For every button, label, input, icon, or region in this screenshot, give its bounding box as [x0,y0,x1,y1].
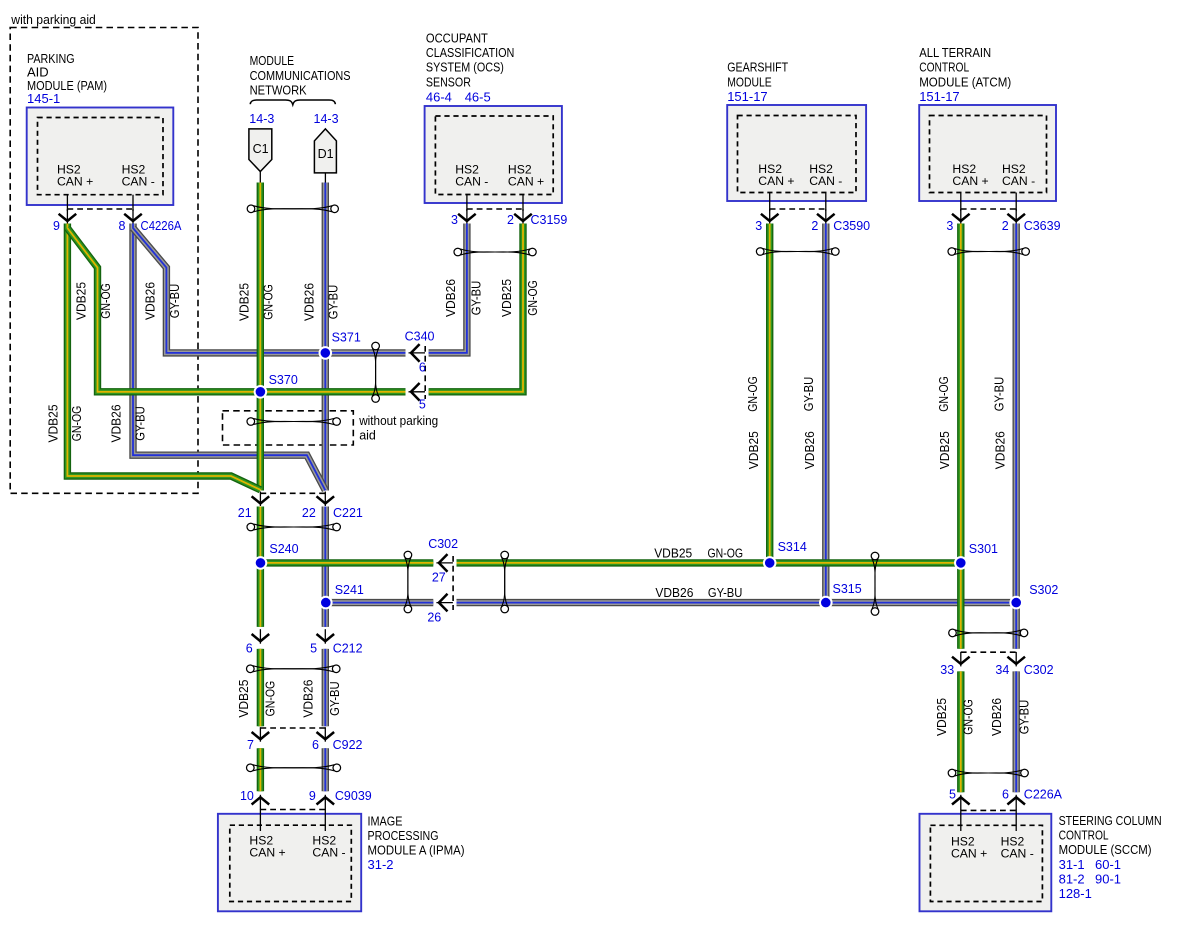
wire label VDB26 GY-BU on horizontal run [655,586,742,600]
svg-text:46-4: 46-4 [426,90,452,105]
wire label VDB25 [938,431,952,469]
svg-text:2: 2 [507,213,514,227]
svg-text:7: 7 [247,738,254,752]
svg-text:C3639: C3639 [1024,219,1061,233]
svg-text:GY-BU: GY-BU [134,406,148,441]
wire VDB26 GY-BU from C302 pin 34 to C226A pin 6 (SCCM) [1013,671,1020,792]
svg-text:14-3: 14-3 [249,112,274,126]
svg-text:8: 8 [119,219,126,233]
svg-text:CAN -: CAN - [455,175,488,189]
svg-text:C340: C340 [405,330,435,344]
wire label VDB25 [237,680,251,718]
svg-text:S240: S240 [269,542,298,556]
svg-text:C9039: C9039 [335,789,372,803]
wire VDB26 GY-BU from C340 pin 6 right and up to OCS pin 3 [429,224,467,353]
wire label GY-BU [992,377,1006,412]
svg-text:GN-OG: GN-OG [99,283,113,319]
connector C1 (network drop) [249,112,274,183]
twisted pair right of C302 pins 27/26 [501,551,509,613]
twisted pair below C922 [247,764,341,772]
svg-text:31-1: 31-1 [1059,857,1085,872]
svg-text:without parking: without parking [358,414,438,428]
svg-text:VDB26: VDB26 [655,586,693,600]
wire VDB25 GN-OG from C221 pin 21 through S240 to C212 pin 6 [257,507,264,627]
splice S241 [319,583,364,610]
twisted pair left of C302 pins 27/26 [404,551,412,613]
wire VDB25 GN-OG from S240 right to C302 pin 27 [261,559,434,566]
svg-text:IMAGE: IMAGE [368,813,403,828]
svg-text:31-2: 31-2 [368,857,394,872]
connector C302 pins 33 and 34 [940,652,1053,677]
svg-text:MODULE A (IPMA): MODULE A (IPMA) [368,843,465,858]
module U-PAM PARKING AID MODULE (PAM) [27,51,174,211]
svg-text:aid: aid [359,429,376,443]
svg-text:SENSOR: SENSOR [426,74,471,89]
without parking aid dashed box and label [223,411,439,445]
svg-text:26: 26 [427,610,441,624]
svg-text:C4226A: C4226A [141,219,183,233]
module U-SCCM STEERING COLUMN CONTROL MODULE (SCCM) [920,809,1162,911]
svg-text:VDB25: VDB25 [47,404,61,442]
svg-text:C212: C212 [333,642,363,656]
module U-OCS OCCUPANT CLASSIFICATION SYSTEM (OCS) SENSOR [425,31,562,212]
svg-text:6: 6 [1002,788,1009,802]
wire VDB26 GY-BU from S241 right to C302 pin 26 [326,599,434,606]
wire label GY-BU [326,285,340,320]
svg-text:S241: S241 [335,583,364,597]
svg-text:145-1: 145-1 [27,91,60,106]
svg-text:CAN -: CAN - [122,175,155,189]
svg-text:C302: C302 [1024,663,1054,677]
splice S314 [763,540,807,570]
wire label GY-BU [134,406,148,441]
svg-text:MODULE: MODULE [727,74,772,89]
svg-text:with parking aid: with parking aid [10,13,96,27]
splice S371 [319,330,361,359]
wire label GY-BU [802,377,816,412]
connector D1 (network drop) [314,112,339,183]
svg-text:C922: C922 [333,738,363,752]
svg-text:VDB25: VDB25 [938,431,952,469]
wire VDB25 GN-OG branch from PAM pin 9 diagonally to S370, right to C340 [67,228,405,392]
svg-text:D1: D1 [318,147,334,161]
svg-text:33: 33 [940,663,954,677]
svg-text:GY-BU: GY-BU [802,377,816,412]
svg-text:CAN +: CAN + [758,174,794,188]
svg-text:5: 5 [310,642,317,656]
svg-text:GN-OG: GN-OG [70,406,84,442]
svg-text:GN-OG: GN-OG [962,699,976,735]
svg-text:2: 2 [811,219,818,233]
wire label GN-OG [526,280,540,316]
wire label VDB26 [144,282,158,320]
wire label GN-OG [70,406,84,442]
wire label VDB25 GN-OG on horizontal run [654,546,743,560]
svg-text:S301: S301 [969,542,998,556]
svg-text:MODULE: MODULE [250,53,295,68]
wire VDB25 GN-OG from ATCM pin 3 down through S301 to C302 pin 33 [957,224,964,649]
twisted pair below GEARSHIFT [756,248,839,256]
svg-text:VDB25: VDB25 [747,431,761,469]
svg-text:CAN -: CAN - [1002,174,1035,188]
svg-text:S371: S371 [332,330,361,344]
wire label VDB26 [301,680,315,718]
svg-text:C3159: C3159 [531,213,568,227]
module U-IPMA IMAGE PROCESSING MODULE A (IPMA) [218,809,465,911]
svg-text:GY-BU: GY-BU [326,285,340,320]
svg-text:GN-OG: GN-OG [708,546,744,560]
svg-text:GY-BU: GY-BU [168,284,182,319]
svg-text:9: 9 [309,789,316,803]
svg-text:CONTROL: CONTROL [1059,828,1109,843]
with parking aid dashed boundary box [10,13,198,493]
wire label VDB26 [302,283,316,321]
svg-text:STEERING COLUMN: STEERING COLUMN [1059,813,1162,828]
svg-text:6: 6 [246,642,253,656]
svg-text:GN-OG: GN-OG [526,280,540,316]
svg-text:GY-BU: GY-BU [1018,700,1032,735]
svg-text:MODULE (ATCM): MODULE (ATCM) [919,74,1011,89]
wire VDB26 GY-BU from GEARSHIFT pin 2 down to S315 [822,224,829,603]
svg-text:6: 6 [312,738,319,752]
svg-text:VDB26: VDB26 [109,404,123,442]
svg-text:14-3: 14-3 [314,112,339,126]
svg-text:VDB26: VDB26 [301,680,315,718]
svg-text:S302: S302 [1029,583,1058,597]
wire label VDB26 [990,698,1004,736]
wire label VDB25 [747,431,761,469]
svg-text:21: 21 [238,506,252,520]
connector C226A pins 5 and 6 (SCCM) [949,788,1063,811]
svg-text:3: 3 [755,219,762,233]
svg-text:2: 2 [1002,219,1009,233]
wire label GY-BU [328,681,342,716]
wire label GY-BU [168,284,182,319]
connector C3159 pins 3 and 2 (OCS) [451,209,567,227]
svg-text:5: 5 [419,398,426,412]
svg-text:GY-BU: GY-BU [470,281,484,316]
svg-text:GY-BU: GY-BU [328,681,342,716]
twisted pair below OCS [454,248,536,256]
svg-text:C221: C221 [333,506,363,520]
connector C922 pins 7 and 6 [247,727,362,752]
wire VDB25 GN-OG from C302 pin 27 through S314 to S301 [457,559,961,566]
svg-text:VDB25: VDB25 [500,279,514,317]
wire VDB26 GY-BU from C221 pin 22 through S241 to C212 pin 5 [322,507,329,627]
wire label VDB25 [500,279,514,317]
wire VDB25 GN-OG from C340 pin 5 right and up to OCS pin 2 [429,224,523,392]
twisted pair above C226A [948,769,1028,777]
svg-text:151-17: 151-17 [919,89,959,104]
svg-text:60-1: 60-1 [1095,857,1121,872]
svg-text:NETWORK: NETWORK [250,82,307,97]
svg-text:6: 6 [419,361,426,375]
wire VDB26 GY-BU from PAM pin 8 down, right, diagonal to C221 pin 22 [133,224,325,491]
svg-text:VDB25: VDB25 [237,680,251,718]
svg-text:128-1: 128-1 [1059,886,1092,901]
connector C9039 pins 10 and 9 (IPMA) [240,789,372,810]
wire label GN-OG [746,376,760,412]
svg-text:C302: C302 [428,537,458,551]
wire label GN-OG [962,699,976,735]
svg-text:CAN +: CAN + [57,175,93,189]
connector C302 pins 27 and 26 [427,537,458,625]
svg-text:CLASSIFICATION: CLASSIFICATION [426,45,515,60]
wire label VDB26 [803,431,817,469]
wire label VDB26 [444,279,458,317]
connector C3590 pins 3 and 2 (GEARSHIFT) [755,209,870,233]
wire VDB25 GN-OG from C922 pin 7 to C9039 pin 10 (IPMA) [257,748,264,791]
svg-text:C3590: C3590 [833,219,870,233]
wire VDB25 GN-OG from PAM pin 9 down, right, diagonal to C221 pin 21 [67,224,260,490]
wire VDB26 GY-BU from C302 pin 26 through S315 to S302, down to C302 pin 34 [457,603,1017,649]
svg-text:GN-OG: GN-OG [746,376,760,412]
connector C340 pins 6 and 5 [405,330,435,412]
twisted pair below C212 [247,665,341,673]
wire VDB26 GY-BU branch from PAM pin 8 diagonally to S371, right to C340 [133,228,406,353]
twisted pair above C302 pins 33/34 [949,629,1028,637]
module U-GSM GEARSHIFT MODULE [727,60,866,211]
svg-text:GY-BU: GY-BU [708,586,743,600]
svg-text:C226A: C226A [1024,788,1063,802]
svg-text:CAN +: CAN + [951,846,987,860]
twisted pair left of C340 [372,342,380,402]
connector C3639 pins 3 and 2 (ATCM) [946,209,1060,233]
svg-text:9: 9 [53,219,60,233]
label MODULE COMMUNICATIONS NETWORK with brace [250,53,351,105]
svg-text:VDB25: VDB25 [935,698,949,736]
svg-text:CAN -: CAN - [1001,846,1034,860]
wire VDB26 GY-BU from D1 down through S371 to C221 pin 22 [322,183,329,491]
svg-text:VDB26: VDB26 [444,279,458,317]
svg-text:34: 34 [995,663,1009,677]
svg-text:VDB26: VDB26 [990,698,1004,736]
wire VDB26 GY-BU from ATCM pin 2 down to S302 [1013,224,1020,603]
svg-text:CAN +: CAN + [249,845,285,859]
svg-text:81-2: 81-2 [1059,871,1085,886]
svg-text:VDB26: VDB26 [994,431,1008,469]
wire label VDB25 [75,282,89,320]
svg-text:ALL TERRAIN: ALL TERRAIN [919,45,991,60]
svg-text:S370: S370 [269,373,298,387]
splice S370 [254,373,298,399]
svg-text:27: 27 [432,571,446,585]
twisted pair below ATCM [948,248,1029,256]
svg-text:5: 5 [949,788,956,802]
svg-text:46-5: 46-5 [465,90,491,105]
svg-text:COMMUNICATIONS: COMMUNICATIONS [250,68,351,83]
wire label VDB25 [935,698,949,736]
svg-text:GEARSHIFT: GEARSHIFT [727,60,788,75]
splice S301 [954,542,998,570]
wire VDB25 GN-OG from GEARSHIFT pin 3 down to S314 [766,224,773,563]
svg-text:3: 3 [451,213,458,227]
connector C4226A pins 9 and 8 (PAM) [53,209,182,233]
svg-text:GN-OG: GN-OG [261,284,275,320]
twisted pair below C221 [247,523,340,531]
wire label GN-OG [263,681,277,717]
svg-text:CAN -: CAN - [809,174,842,188]
svg-text:GN-OG: GN-OG [263,681,277,717]
svg-text:GY-BU: GY-BU [992,377,1006,412]
svg-text:VDB26: VDB26 [803,431,817,469]
wire VDB26 GY-BU from C922 pin 6 to C9039 pin 9 (IPMA) [322,748,329,791]
svg-text:PROCESSING: PROCESSING [368,828,439,843]
svg-text:151-17: 151-17 [727,89,767,104]
svg-text:GN-OG: GN-OG [937,376,951,412]
svg-text:MODULE (SCCM): MODULE (SCCM) [1059,842,1152,857]
splice S315 [819,582,862,609]
svg-text:3: 3 [946,219,953,233]
svg-text:CONTROL: CONTROL [919,60,969,75]
svg-text:10: 10 [240,789,254,803]
svg-text:VDB26: VDB26 [302,283,316,321]
svg-text:CAN +: CAN + [952,174,988,188]
wire VDB25 GN-OG from C212 pin 6 to C922 pin 7 [257,649,264,726]
connector C212 pins 6 and 5 [246,629,363,656]
svg-text:VDB25: VDB25 [237,283,251,321]
svg-text:22: 22 [302,506,316,520]
svg-text:C1: C1 [253,142,269,156]
wire label VDB25 [47,404,61,442]
wire VDB25 GN-OG from C302 pin 33 to C226A pin 5 (SCCM) [957,671,964,792]
svg-text:OCCUPANT: OCCUPANT [426,31,488,46]
wire label GN-OG [261,284,275,320]
connector C221 pins 21 and 22 [238,492,363,521]
wire VDB26 GY-BU from C212 pin 5 to C922 pin 6 [322,649,329,726]
wire label VDB25 [237,283,251,321]
wire label GN-OG [937,376,951,412]
svg-text:S314: S314 [778,540,807,554]
wire VDB25 GN-OG from C1 down through S370 to C221 pin 21 [257,183,264,491]
twisted pair in without-parking-aid box [247,418,340,426]
svg-text:S315: S315 [833,582,862,596]
twisted pair between S315 and S301 [871,552,879,615]
svg-text:VDB25: VDB25 [75,282,89,320]
svg-text:90-1: 90-1 [1095,871,1121,886]
svg-text:SYSTEM (OCS): SYSTEM (OCS) [426,60,504,75]
splice S240 [254,542,299,570]
svg-text:VDB25: VDB25 [654,546,692,560]
svg-text:CAN +: CAN + [508,175,544,189]
wire label VDB26 [109,404,123,442]
splice S302 [1009,583,1058,610]
wire label GN-OG [99,283,113,319]
svg-text:VDB26: VDB26 [144,282,158,320]
wire label GY-BU [470,281,484,316]
wire label VDB26 [994,431,1008,469]
wire label GY-BU [1018,700,1032,735]
svg-text:CAN -: CAN - [312,845,345,859]
module U-ATCM ALL TERRAIN CONTROL MODULE (ATCM) [919,45,1056,211]
twisted pair below C1/D1 [247,205,338,213]
